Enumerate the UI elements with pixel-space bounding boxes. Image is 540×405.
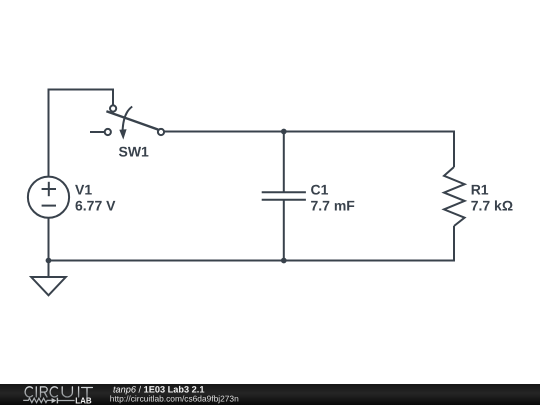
- wire bottom rail: [49, 260, 456, 262]
- svg-text:SW1: SW1: [119, 144, 150, 160]
- svg-text:6.77 V: 6.77 V: [75, 197, 116, 213]
- CircuitLab logo lead wire to LAB: [58, 400, 75, 402]
- CircuitLab logo waveform resistor-diode glyph: [23, 398, 52, 402]
- wire top rail from switch common to R1 branch: [164, 131, 455, 133]
- svg-text:R1: R1: [471, 182, 489, 198]
- svg-text:7.7 kΩ: 7.7 kΩ: [471, 197, 513, 213]
- node junction bottom of C1: [281, 258, 287, 264]
- ground: [31, 277, 66, 295]
- footer bar: [0, 384, 540, 405]
- node junction top of C1: [281, 129, 287, 135]
- svg-text:V1: V1: [75, 182, 92, 198]
- svg-text:http://circuitlab.com/cs6da9fb: http://circuitlab.com/cs6da9fbj273n: [110, 393, 239, 403]
- svg-text:LAB: LAB: [75, 395, 92, 405]
- wire left vertical from top rail down to V1 top: [48, 89, 50, 178]
- wire R1 branch bottom lead: [453, 226, 455, 262]
- wire R1 branch top lead: [453, 131, 455, 168]
- resistor R1: [444, 167, 465, 226]
- capacitor C1: [262, 192, 306, 200]
- CircuitLab logo wordmark CIRCUIT: [25, 387, 92, 397]
- voltage source V1: [28, 177, 69, 218]
- svg-text:7.7 mF: 7.7 mF: [311, 197, 356, 213]
- wire C1 bottom lead: [283, 200, 285, 261]
- wire switch left stub: [90, 131, 105, 133]
- wire top-left horizontal from V1 branch to switch branch: [48, 89, 115, 91]
- CircuitLab logo diode glyph: [52, 398, 57, 403]
- wire V1 bottom lead to ground junction: [48, 218, 50, 278]
- wire C1 top lead: [283, 132, 285, 193]
- node junction V1 ground: [46, 258, 52, 264]
- switch SW1: [105, 105, 164, 139]
- svg-text:C1: C1: [311, 182, 329, 198]
- wire switch branch vertical down to switch top terminal: [112, 89, 114, 106]
